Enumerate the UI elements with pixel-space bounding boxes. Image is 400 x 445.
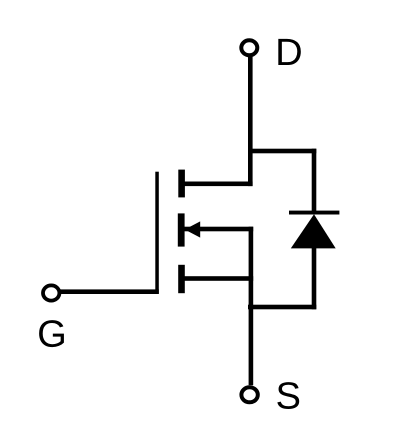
- body channel bar: [178, 213, 185, 246]
- body arrow (pointing into channel): [185, 221, 201, 237]
- wire: body horizontal to source node: [185, 227, 254, 232]
- wire: body diode cathode vertical: [312, 149, 317, 213]
- wire: branch to body diode cathode (horizontal): [248, 149, 316, 154]
- wire: drain horizontal to MOSFET drain bar: [182, 182, 253, 187]
- wire: gate horizontal from terminal G: [61, 289, 159, 294]
- wire: body diode anode vertical: [312, 248, 317, 309]
- wire: diode anode horizontal to source line: [248, 305, 316, 310]
- drain channel bar: [178, 170, 185, 198]
- gate electrode line: [155, 172, 159, 294]
- terminal G (node G): [43, 285, 59, 300]
- wire: drain vertical from terminal D: [248, 57, 253, 187]
- source channel bar: [178, 265, 185, 293]
- label S: [277, 382, 299, 409]
- body diode (anode at source, cathode at drain): [289, 211, 339, 249]
- diode anode triangle: [291, 214, 336, 248]
- wire: source vertical to terminal S: [249, 227, 254, 386]
- diode cathode bar: [289, 211, 339, 215]
- wire: source horizontal from source bar: [182, 276, 253, 281]
- label G: [39, 320, 64, 347]
- terminal S (node S): [241, 387, 257, 402]
- transistor: N-channel MOSFET: [155, 170, 200, 294]
- terminal D (node D): [241, 40, 257, 55]
- label D: [278, 39, 301, 65]
